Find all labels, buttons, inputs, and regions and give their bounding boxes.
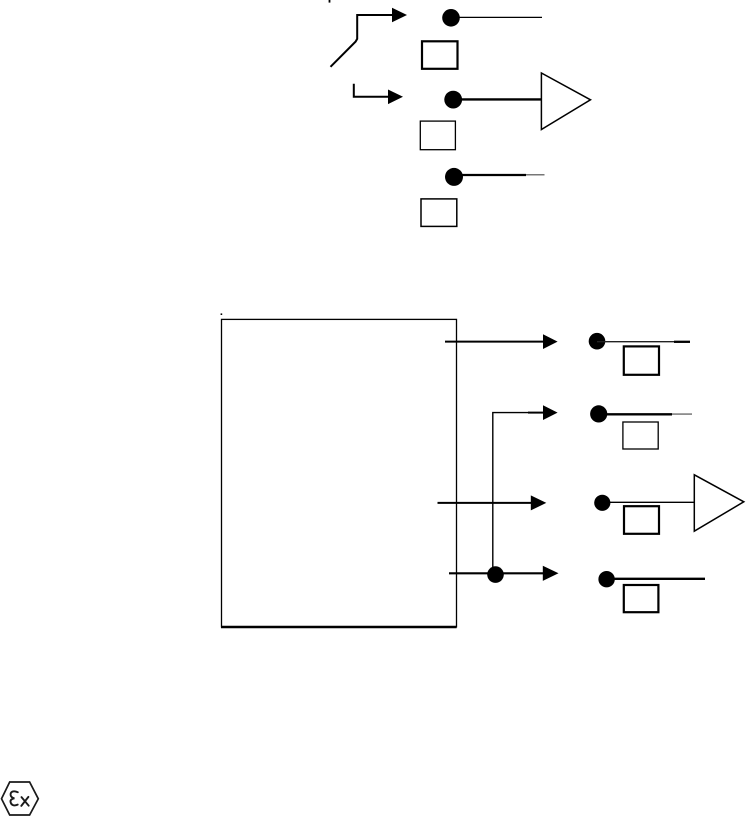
wire thick tail out 1 bbox=[674, 341, 690, 343]
wire thin tail from terminal 3 bbox=[526, 174, 545, 176]
box 3 bbox=[421, 199, 457, 227]
wire terminal 2 to amplifier 1 bbox=[453, 98, 541, 100]
output wire arrow 4 bbox=[449, 566, 559, 581]
output wire arrow 1 bbox=[445, 334, 558, 349]
wire arrow into terminal 1 bbox=[331, 8, 408, 67]
Ex logo hexagon bbox=[2, 782, 39, 815]
terminal 2 bbox=[444, 91, 462, 109]
box out 2 bbox=[623, 422, 658, 449]
Ex logo epsilon bbox=[10, 791, 17, 805]
wire thin tail out 2 bbox=[672, 413, 692, 415]
wire stub at top edge (cut off) bbox=[329, 0, 331, 3]
wire arrow into terminal 2 bbox=[354, 84, 403, 104]
wire from terminal out 1 bbox=[597, 341, 690, 343]
box out 3 bbox=[624, 506, 659, 534]
amplifier 1 bbox=[541, 73, 590, 130]
terminal out 4 bbox=[598, 571, 614, 587]
output wire arrow 3 bbox=[438, 495, 547, 510]
box 1 bbox=[422, 41, 458, 69]
terminal out 2 bbox=[590, 405, 607, 422]
dot near device corner bbox=[221, 313, 223, 315]
box out 4 bbox=[624, 585, 659, 612]
terminal 3 bbox=[445, 168, 463, 186]
wire from terminal out 2 bbox=[599, 413, 672, 415]
terminal out 3 bbox=[594, 495, 610, 511]
wire from terminal 3 bbox=[454, 174, 526, 176]
device block bbox=[222, 319, 457, 626]
junction dot on output wire 4 bbox=[487, 566, 504, 583]
box out 1 bbox=[624, 346, 659, 374]
wire from terminal 1 bbox=[451, 16, 542, 18]
Ex logo x bbox=[21, 797, 28, 806]
device block thick bottom edge bbox=[221, 626, 457, 629]
amplifier 2 bbox=[694, 475, 744, 531]
output wire arrow 2 with branch down bbox=[493, 405, 558, 574]
terminal 1 bbox=[442, 9, 460, 27]
box 2 bbox=[420, 121, 455, 150]
wire from terminal out 4 bbox=[607, 578, 705, 580]
wire terminal out 3 to amplifier 2 bbox=[602, 501, 695, 503]
terminal out 1 bbox=[589, 333, 606, 350]
